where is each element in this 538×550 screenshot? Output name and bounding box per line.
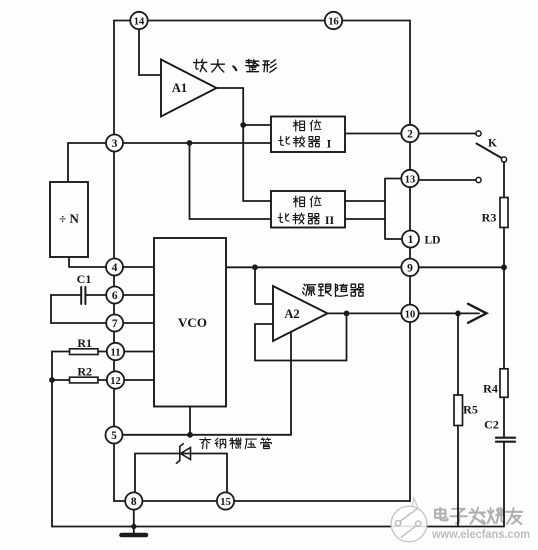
svg-text:2: 2 [407, 129, 413, 141]
pin 4 [106, 259, 123, 276]
wire A1 bus to phase comparator II upper input [243, 200, 271, 202]
phase comparator I box [271, 117, 345, 153]
label comparator II 比较器 [278, 213, 289, 222]
node junction A2 input tap [253, 265, 257, 269]
wire left rail R1 R2 to bottom rail [52, 352, 70, 527]
wire pin3 to divider [67, 143, 69, 182]
node junction right rail pin9 row [502, 265, 506, 269]
wire C2 to bottom rail [503, 442, 505, 527]
wire A1 output to comparator bus [217, 88, 244, 201]
switch K upper contact [476, 131, 481, 136]
svg-text:10: 10 [405, 309, 416, 320]
zener diode symbol [181, 448, 191, 460]
svg-text:11: 11 [111, 348, 121, 359]
watermark logo bubble [391, 498, 427, 542]
svg-text:R1: R1 [77, 336, 92, 350]
wire right column pins 2,13,1,9,10 down to pin15 row [409, 21, 411, 502]
pin 5 [106, 427, 123, 444]
svg-text:5: 5 [111, 430, 117, 442]
wire bus joining pin13 and pin1 [385, 179, 410, 240]
node junction pin3 branch [188, 141, 192, 145]
wire pin2 to switch contact [419, 133, 476, 135]
wire pin11 to VCO [124, 351, 154, 353]
wire pin6 to VCO [123, 294, 154, 296]
svg-text:3: 3 [112, 138, 118, 150]
pin 9 [401, 259, 418, 276]
svg-text:13: 13 [405, 175, 416, 186]
svg-text:12: 12 [110, 376, 121, 387]
svg-text:LD: LD [425, 235, 441, 247]
wire comparator II outputs to bus [345, 201, 385, 219]
pin 6 [106, 287, 123, 304]
wire R3 down right rail to R4 [503, 228, 505, 369]
wire R1 to pin11 [98, 351, 107, 353]
resistor R4 [500, 369, 508, 398]
svg-text:R4: R4 [483, 382, 498, 396]
wire pin5 row to A2 bottom [123, 434, 291, 436]
op-amp A1 [161, 60, 217, 117]
label 齐纳稳压管 zener regulator [200, 438, 211, 449]
svg-text:A2: A2 [284, 307, 299, 321]
wire pole down to R3 [503, 162, 505, 198]
node junction ground stub bottom rail [132, 525, 136, 529]
node junction A2 output feedback [345, 311, 349, 315]
wire pin14 down to A1 input [139, 29, 161, 75]
wire A1 bus to phase comparator I upper input [243, 124, 271, 126]
label comparator II 相位 [294, 196, 305, 207]
svg-text:II: II [325, 213, 335, 227]
svg-text:9: 9 [407, 262, 413, 274]
wire R2 to pin12 [98, 379, 107, 381]
svg-text:7: 7 [112, 318, 118, 330]
divider ÷N box [50, 182, 88, 257]
wire zener loop left [135, 454, 227, 496]
wire VCO bottom stub [189, 407, 191, 435]
wire comparator I output to pin2 [345, 133, 410, 135]
resistor R5 [454, 395, 463, 426]
capacitor C1 [80, 287, 82, 304]
label 源跟随器 source follower [303, 284, 316, 296]
pin 1 [402, 231, 419, 248]
wire divider output to pin4 row [69, 257, 154, 267]
svg-text:R2: R2 [77, 365, 92, 379]
pin 8 [125, 492, 142, 509]
svg-text:4: 4 [112, 262, 118, 274]
pin 12 [107, 371, 124, 388]
wire pin13 to switch contact [419, 179, 476, 181]
op-amp A2 [273, 286, 328, 341]
svg-text:C1: C1 [77, 272, 92, 286]
watermark 电子发烧友 [435, 508, 522, 524]
svg-text:16: 16 [328, 17, 339, 28]
resistor R3 [500, 198, 508, 228]
wire pin3 row to comparator I lower input [68, 142, 271, 144]
wire C1 loop pin6 to pin7 [51, 295, 106, 323]
wire pin9 row from VCO to right rail [226, 266, 504, 268]
wire top rail pin14 to pin16 to pin2 column [114, 20, 410, 22]
wire R4 to C2 [503, 397, 505, 437]
label 放大、整形 amplify shaping [194, 59, 207, 71]
switch K pole contact [501, 157, 506, 162]
pin 14 [130, 12, 147, 29]
wire pin7 to VCO [123, 322, 154, 324]
wire pin12 to VCO [124, 379, 154, 381]
label comparator I 比较器 [279, 136, 290, 145]
wire A2 bottom tap [290, 332, 292, 435]
svg-text:K: K [488, 138, 497, 150]
svg-text:C2: C2 [484, 418, 499, 432]
arrow output [468, 304, 487, 323]
svg-text:www.elecfans.com: www.elecfans.com [431, 527, 530, 541]
switch K blade [477, 144, 502, 159]
pin 10 [401, 305, 418, 322]
pin 13 [401, 170, 418, 187]
resistor R1 [70, 349, 99, 355]
svg-text:15: 15 [220, 497, 231, 508]
phase comparator II box [271, 191, 345, 228]
wire tap down to A2 upper input [255, 267, 273, 304]
wire A2 lower input feedback loop [255, 313, 347, 360]
pin 16 [325, 12, 342, 29]
node junction left rail R2 [50, 378, 54, 382]
svg-text:÷ N: ÷ N [59, 211, 79, 226]
wire pin8 pin15 row [114, 500, 410, 502]
wire down to R5 [457, 313, 459, 395]
wire A2 output row through pin10 to arrow [328, 312, 480, 314]
ground bar [122, 533, 147, 538]
label comparator I 相位 [294, 120, 305, 131]
svg-text:I: I [327, 137, 332, 151]
wire bottom rail [52, 526, 504, 528]
pin 3 [106, 135, 123, 152]
pin 7 [106, 315, 123, 332]
pin 15 [217, 492, 234, 509]
wire left bus x=114 from pin14 down through pins 3,4,6,7,11,12,5 to pin8 row [113, 21, 115, 502]
wire pin3 branch down to comparator II lower input [190, 143, 272, 219]
svg-text:6: 6 [112, 290, 118, 302]
svg-text:1: 1 [408, 234, 414, 246]
svg-text:8: 8 [131, 496, 137, 508]
svg-text:VCO: VCO [178, 315, 207, 330]
svg-text:R5: R5 [463, 403, 478, 417]
VCO box [154, 238, 226, 407]
node junction A1 bus / comp I input [241, 123, 245, 127]
ground stub [133, 510, 135, 535]
svg-text:A1: A1 [172, 81, 187, 95]
capacitor C2 [496, 437, 515, 439]
switch K lower contact [476, 177, 481, 182]
resistor R2 [70, 377, 99, 383]
svg-text:R3: R3 [482, 211, 497, 225]
node junction R5 tap [456, 311, 460, 315]
wire R5 to bottom rail [457, 426, 459, 527]
svg-text:14: 14 [134, 17, 145, 28]
pin 11 [107, 343, 124, 360]
node junction VCO stub pin5 row [188, 433, 192, 437]
pin 2 [401, 125, 418, 142]
